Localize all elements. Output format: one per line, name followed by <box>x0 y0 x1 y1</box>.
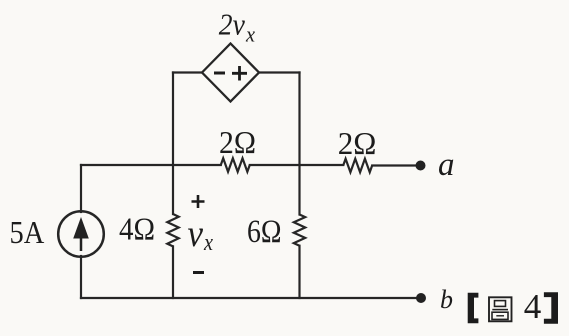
arrow head of current source <box>73 217 89 239</box>
svg-text:b: b <box>440 285 453 314</box>
minus sign inside diamond <box>214 72 225 75</box>
plus sign inside diamond <box>232 66 247 81</box>
terminal node a dot <box>416 161 426 171</box>
wire: right branch x=299.5 from diamond level to 6-ohm top <box>298 73 300 215</box>
svg-text:2Ω: 2Ω <box>219 124 256 160</box>
caption bracket right <box>544 292 558 324</box>
resistor R4 6-ohm vertical zigzag <box>294 215 305 246</box>
svg-text:2v: 2v <box>219 7 245 42</box>
wire: middle branch x=173 from diamond level through node to 4-ohm top <box>172 73 174 215</box>
current source I1 (5A circle with up arrow) <box>58 211 104 257</box>
wire: stub from middle branch to diamond left vertex <box>173 71 202 73</box>
wire: left branch above current source <box>80 165 82 212</box>
svg-text:4Ω: 4Ω <box>119 210 155 246</box>
resistor R1 4-ohm vertical zigzag <box>167 214 178 246</box>
wire: left branch below current source <box>80 256 82 298</box>
wire: stub from diamond right vertex to right branch <box>259 71 300 73</box>
svg-text:x: x <box>203 230 213 256</box>
minus polarity mark of vx <box>193 271 204 274</box>
svg-text:2Ω: 2Ω <box>338 125 377 161</box>
dependent source U1 (diamond) 2vx <box>202 44 259 102</box>
svg-text:6Ω: 6Ω <box>247 214 282 250</box>
caption glyph "tu" (figure) drawn <box>489 297 512 321</box>
plus polarity mark of vx <box>192 195 205 208</box>
svg-text:x: x <box>245 22 255 47</box>
resistor R2 2-ohm horizontal zigzag (left) <box>221 158 250 171</box>
wire: bottom node b rail <box>81 297 421 299</box>
caption bracket left <box>468 293 479 324</box>
wire: middle branch below 4-ohm resistor <box>172 246 174 298</box>
wire: right 2-ohm resistor to terminal a <box>372 164 416 166</box>
svg-text:5A: 5A <box>10 214 45 250</box>
svg-text:4: 4 <box>524 287 542 326</box>
terminal node b dot <box>416 293 426 303</box>
resistor R3 2-ohm horizontal zigzag (right) <box>343 159 372 172</box>
wire: between the two 2-ohm resistors <box>250 164 343 166</box>
svg-text:a: a <box>438 147 455 183</box>
wire: right branch below 6-ohm resistor <box>298 246 300 298</box>
arrow shaft of current source <box>80 224 83 251</box>
wire: main horizontal node from 5A top to resistor 2ohm left <box>81 164 221 166</box>
svg-text:v: v <box>188 213 204 255</box>
